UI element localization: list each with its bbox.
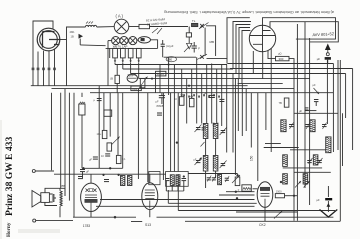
capacitor C8: [219, 98, 224, 100]
trimmer T9: [207, 177, 211, 179]
potentiometer P1: [127, 74, 137, 82]
svg-text:7B: 7B: [279, 101, 282, 105]
coil L6: [313, 155, 318, 165]
wire stair 4: [235, 78, 310, 80]
IF2 coil a: [203, 156, 208, 172]
tube V1 pin wire k: [37, 52, 39, 86]
wire contact out: [207, 57, 228, 59]
switch S2 contact: [200, 55, 204, 59]
capacitor C13: [78, 176, 83, 178]
wire V2 top: [90, 174, 92, 183]
trimmer T10: [212, 177, 216, 179]
wire v 333: [332, 64, 334, 153]
wire bus h210: [178, 210, 335, 212]
wire bus h174: [54, 173, 166, 175]
ground symbol: [327, 201, 329, 212]
trimmer T7: [295, 181, 301, 188]
trimmer T5: [274, 211, 282, 219]
ballast tooth 1: [113, 48, 118, 58]
svg-text:µF: µF: [86, 171, 89, 174]
tube V3 envelope: [142, 183, 158, 210]
wire switch drop: [204, 28, 206, 56]
svg-text:1500: 1500: [276, 189, 282, 193]
wire r h172: [294, 171, 331, 173]
wire bus h203: [168, 202, 256, 204]
wire v103: [103, 93, 105, 131]
svg-text:Horny: Horny: [6, 222, 12, 237]
tube V1 envelope: [37, 28, 60, 51]
wire to lamp A: [97, 26, 115, 28]
wire vert: [191, 69, 193, 98]
wire bus g: [90, 92, 333, 94]
wire top right 1: [263, 18, 336, 39]
dial lamp L2: [120, 37, 128, 45]
fuse F1: [138, 37, 150, 43]
terminal speaker: [32, 170, 35, 173]
capacitor C6: [93, 156, 98, 158]
resistor R7: [179, 97, 184, 106]
speaker voice coil: [49, 194, 52, 202]
trimmer T6: [232, 175, 240, 183]
svg-text:µF: µF: [156, 100, 159, 104]
wire vert: [257, 93, 259, 181]
svg-text:a) Beim Netzanschl. an Gleichs: a) Beim Netzanschl. an Gleichstrom Skale…: [164, 10, 334, 14]
wire v178: [177, 174, 179, 210]
trimmer T2: [289, 124, 294, 126]
wire bus h195: [219, 194, 255, 196]
IF2 trimmer: [196, 160, 201, 162]
IF1 coil a: [203, 124, 208, 139]
tube V2 electrodes: [86, 189, 89, 192]
wire vert: [250, 93, 252, 148]
capacitor C14: [104, 179, 109, 181]
dial lamp L3: [129, 37, 137, 45]
wire v 342: [342, 113, 344, 166]
switch arrow: [187, 43, 192, 49]
svg-text:( A ): ( A ): [116, 14, 124, 19]
ballast tooth 4: [136, 48, 141, 58]
wire r h167: [283, 167, 322, 169]
wire V3 top: [149, 174, 151, 183]
svg-text:1B: 1B: [71, 35, 74, 39]
wire R1500 out: [285, 195, 298, 197]
resistor R3: [140, 78, 145, 87]
wire vert: [186, 79, 188, 124]
coil L7: [283, 174, 288, 184]
wire bus h212: [236, 211, 297, 213]
wire vert: [241, 84, 243, 136]
IF1 trimmer b: [221, 130, 226, 132]
svg-text:4M1: 4M1: [70, 30, 76, 34]
wire bus h217: [73, 216, 136, 218]
capacitor C7: [209, 94, 215, 96]
resistor R2: [116, 65, 118, 76]
coil L8: [303, 174, 308, 184]
IF4 can: [166, 172, 189, 187]
junction dot d: [151, 78, 153, 80]
svg-text:0,1: 0,1: [122, 158, 126, 161]
svg-text:F: F: [198, 47, 200, 51]
wire dial lamps: [108, 40, 112, 42]
wire v 305: [304, 22, 306, 188]
wire V4 pin2: [262, 52, 264, 79]
capacitor C21: [97, 98, 102, 100]
svg-text:Prinz 38 GW E 433: Prinz 38 GW E 433: [4, 137, 15, 216]
wire vert: [221, 65, 223, 127]
wire vert: [181, 69, 183, 97]
ballast left leg: [109, 48, 111, 58]
wire V5 bottom: [264, 207, 266, 221]
wire fuse out: [151, 40, 158, 49]
wire vert: [170, 93, 172, 172]
IF1 trimmer: [196, 127, 201, 129]
wire loop 2: [233, 22, 251, 69]
svg-text:TL: TL: [192, 19, 196, 23]
wire bus h173r: [188, 173, 237, 175]
IF2 trimmer b: [221, 163, 226, 165]
wire v 309: [309, 38, 311, 205]
wire vert: [159, 65, 161, 93]
resistor R1: [188, 27, 190, 33]
capacitor C4: [159, 95, 165, 97]
wire vert: [226, 65, 228, 153]
resistor R8: [189, 98, 194, 106]
svg-text:µF: µF: [313, 83, 317, 87]
wire bus f: [52, 88, 295, 90]
wire vert: [196, 57, 198, 123]
wire v110: [109, 93, 111, 137]
resistor R7B: [284, 98, 289, 107]
wire bus d: [139, 78, 239, 80]
tube V2 envelope: [81, 183, 102, 211]
svg-text:049: 049: [132, 87, 137, 91]
svg-text:µΩ: µΩ: [278, 52, 281, 56]
svg-text:809/8: 809/8: [157, 104, 164, 108]
wire V5 left: [253, 188, 258, 190]
trimmer T2b: [306, 124, 311, 126]
IF1 coil b: [213, 124, 218, 139]
wire stair 2: [230, 68, 353, 70]
wire R080 out: [150, 26, 189, 28]
switch S1 box TL: [192, 23, 198, 26]
wire v118: [117, 93, 119, 156]
junction dot c: [280, 181, 282, 183]
coil L4: [326, 137, 331, 153]
wire vert: [168, 57, 170, 95]
svg-text:1783: 1783: [83, 224, 91, 228]
junction dot g: [176, 142, 178, 144]
svg-text:S13: S13: [145, 223, 151, 227]
tube V5 electrodes: [260, 187, 269, 190]
svg-text:10ω: 10ω: [97, 133, 102, 136]
ballast tooth 2: [121, 48, 126, 58]
svg-text:µF: µF: [299, 109, 302, 113]
wire top-left loop: [33, 21, 53, 86]
capacitor C9: [157, 112, 162, 114]
wire speaker bottom: [45, 202, 60, 217]
wire v138: [137, 89, 139, 179]
wire stair right v1: [352, 69, 354, 151]
resistor R1500: [275, 194, 284, 198]
wire mains top: [67, 27, 86, 86]
lamp A: [114, 19, 129, 34]
resistor RERMQ: [156, 71, 166, 76]
wire stair right v2: [345, 74, 347, 119]
resistor R4: [102, 130, 107, 138]
wire bus e: [31, 85, 248, 87]
wire r h113: [294, 112, 338, 114]
resistor R049: [131, 86, 141, 91]
speaker LS: [32, 191, 41, 208]
wire v108: [107, 41, 109, 86]
wire bus b: [123, 68, 233, 70]
terminal bottom: [33, 219, 36, 222]
wire lamp A out: [129, 26, 139, 28]
wire v60: [60, 93, 62, 189]
junction dot h: [200, 158, 202, 160]
wire loop 3: [236, 25, 250, 74]
resistor R6: [116, 155, 121, 163]
coil L3: [310, 120, 315, 132]
wire v69: [68, 93, 70, 201]
junction dot a: [235, 191, 237, 193]
svg-text:300: 300: [279, 57, 284, 61]
IF2 coil b: [213, 156, 218, 172]
output transformer TR1: [242, 185, 251, 191]
wire r h110: [305, 110, 317, 112]
wire bus h221l: [131, 221, 142, 223]
wire v122: [122, 93, 124, 169]
wire vert: [270, 93, 272, 152]
tube V3 electrodes: [145, 190, 155, 209]
V3 shield can: [149, 172, 160, 185]
pin label a: [32, 68, 35, 71]
tap tick 2: [122, 58, 124, 61]
svg-text:(m)µF: (m)µF: [166, 44, 174, 48]
wire speaker top: [45, 188, 65, 192]
wire loop 4: [239, 28, 250, 79]
wire stair 1: [228, 63, 334, 65]
wire bus h191: [226, 191, 255, 193]
junction dot b: [236, 197, 238, 199]
IF3 coil a: [121, 176, 125, 186]
svg-text:150: 150: [250, 155, 254, 161]
svg-text:080: 080: [167, 57, 172, 61]
wire v99: [98, 86, 100, 169]
tube V1 electrodes: [43, 32, 61, 48]
svg-text:µF: µF: [89, 159, 92, 162]
tap stub 4: [138, 63, 140, 79]
wire loop 5: [242, 31, 250, 84]
capacitor C3: [192, 45, 197, 47]
pointer line b: [157, 28, 162, 34]
capacitor C12: [80, 169, 85, 171]
inductor heater choke: [86, 25, 97, 27]
wire V4 cathode: [252, 51, 254, 74]
capacitor C22: [202, 127, 206, 129]
wire v 294: [293, 64, 295, 221]
IF4 coil b: [176, 175, 180, 186]
wire v147: [147, 93, 149, 182]
wire tail 340: [339, 60, 341, 221]
wire bus c: [131, 73, 236, 75]
wire bus h168: [82, 167, 123, 169]
wire bus h199: [100, 199, 255, 201]
svg-text:CK2: CK2: [259, 223, 266, 227]
svg-text:B5: B5: [62, 184, 66, 188]
wire vert: [155, 74, 157, 93]
wire v 338: [337, 60, 339, 150]
wire vert: [245, 89, 247, 131]
tap stub 2: [122, 63, 124, 70]
wire vert: [177, 93, 179, 172]
tap tick 1: [114, 58, 116, 61]
wire bus h221r: [185, 220, 340, 222]
wire IF4 links: [166, 181, 184, 191]
wire v74: [73, 93, 75, 217]
wire v 297: [296, 24, 298, 221]
capacitor C17a: [165, 178, 169, 180]
trimmer T2c: [322, 124, 327, 126]
wire vert: [216, 69, 218, 124]
wire grid lead: [60, 39, 67, 41]
trimmer T11: [225, 177, 229, 179]
wire r h149: [290, 149, 326, 151]
wire bus a: [115, 64, 227, 66]
wire stair 3: [233, 73, 346, 75]
resistor R14: [235, 177, 240, 186]
junction dot f: [188, 85, 190, 87]
wire loop 1: [227, 18, 250, 64]
capacitor C20 electrolytic: [325, 198, 332, 200]
wire r h147: [264, 147, 299, 149]
svg-text:C 3: C 3: [129, 74, 134, 78]
svg-text:µ·: µ·: [238, 189, 240, 192]
tap stub 3: [130, 63, 132, 74]
wire IF links: [206, 139, 216, 189]
scan smudge bottom: [18, 229, 60, 233]
wire vert: [201, 74, 203, 124]
wire speaker leads: [54, 188, 65, 198]
wire V3 bottom: [149, 210, 151, 218]
volume pot R9: [79, 104, 85, 115]
tube V1 pin wire g: [48, 51, 50, 86]
wire V4 pin3: [270, 48, 272, 93]
coil L9: [218, 175, 222, 185]
wire v54: [51, 93, 53, 171]
wire v 327: [326, 60, 328, 124]
svg-text:µF: µF: [204, 91, 207, 95]
trimmer T12: [201, 142, 205, 147]
resistor R080: [139, 24, 150, 28]
trimmer T1: [112, 137, 120, 145]
wire vert: [232, 74, 234, 153]
pointer line a: [152, 28, 158, 33]
wire switch out: [206, 26, 216, 56]
svg-text:µF: µF: [317, 57, 321, 61]
ballast tooth 3: [128, 48, 133, 58]
svg-text:(B: (B: [110, 77, 113, 81]
antenna symbol: [325, 44, 331, 51]
svg-text:MB: MB: [210, 40, 215, 44]
coil L5: [283, 155, 288, 167]
pin speck row: [183, 94, 185, 96]
wire fuse row: [164, 56, 196, 58]
trimmer T4: [317, 160, 322, 162]
wire V2 bottom: [90, 212, 92, 218]
wire vert: [265, 93, 267, 130]
tap stub 1: [114, 63, 116, 65]
wire vert: [206, 65, 208, 124]
wire vert: [234, 79, 236, 175]
wire to ballast bar: [80, 44, 105, 47]
trimmer T3: [307, 160, 312, 162]
wire v163: [162, 93, 164, 180]
wire v168b: [167, 190, 169, 203]
tube V4 envelope: [249, 25, 275, 51]
wire bus h206: [96, 205, 255, 207]
wire bus h217r: [157, 216, 334, 218]
wire r h143: [265, 143, 281, 145]
ballast bar: [106, 47, 158, 49]
capacitor C2: [161, 43, 165, 45]
svg-text:µF: µF: [317, 198, 321, 202]
wire vert: [237, 79, 239, 131]
tube V4 electrodes: [250, 26, 276, 52]
wire vert: [211, 64, 213, 124]
wire top right 2: [270, 22, 338, 42]
dial lamp L1: [112, 37, 120, 45]
trimmer T8: [304, 181, 310, 188]
resistor R9b: [104, 110, 112, 116]
capacitor C17: [182, 178, 187, 180]
wire vert: [173, 65, 175, 172]
switch S1 contact: [200, 24, 204, 28]
diode D1: [314, 88, 320, 94]
tap tick 3: [130, 58, 132, 61]
IF4 coil a: [170, 175, 174, 186]
wire v65: [64, 89, 66, 196]
resistor R5: [107, 143, 112, 151]
wire ground feed: [327, 186, 329, 197]
junction dot e: [168, 64, 170, 66]
IF3 coil b: [128, 176, 132, 186]
capacitor C11: [314, 99, 319, 101]
tube V5 envelope: [257, 182, 273, 208]
speaker field coil: [60, 191, 62, 206]
resistor R300: [268, 50, 276, 59]
wire stair 5: [238, 83, 283, 85]
capacitor C5: [105, 153, 110, 155]
tap tick 4: [138, 58, 140, 61]
capacitor C1: [79, 34, 84, 39]
coil L2: [281, 120, 286, 132]
